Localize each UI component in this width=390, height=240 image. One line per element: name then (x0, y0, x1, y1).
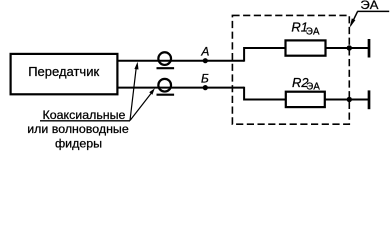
node Б (203, 85, 208, 90)
wire bottom feeder (117, 87, 244, 89)
terminal top (368, 39, 371, 58)
dashed enclosure (antenna equivalent) (232, 15, 349, 124)
wire R1 to terminal (326, 47, 370, 49)
svg-text:или волноводные: или волноводные (27, 122, 129, 136)
wire step up to R1 (244, 48, 286, 62)
label ЭА underline (357, 10, 389, 12)
svg-text:ЭА: ЭА (306, 81, 320, 92)
svg-text:А: А (200, 44, 209, 58)
leader to enclosure (351, 11, 358, 25)
leader 2 arrowhead (149, 88, 155, 95)
svg-text:ЭА: ЭА (306, 26, 320, 37)
leader 1 arrowhead (134, 62, 138, 70)
leader underline (40, 120, 130, 122)
coax connector symbol bottom: circle (158, 79, 171, 92)
wire R2 to terminal (325, 99, 369, 101)
coax connector symbol top: bar (157, 67, 175, 69)
resistor R2 (286, 92, 325, 107)
leader 2 to bottom feeder (130, 94, 151, 121)
terminal bottom (368, 90, 371, 109)
svg-text:фидеры: фидеры (55, 137, 102, 151)
svg-text:Коаксиальные: Коаксиальные (43, 108, 126, 122)
leader arrowhead (350, 18, 356, 27)
wire top feeder (117, 60, 244, 62)
coax connector symbol top: circle (158, 52, 171, 65)
leader 1 to top feeder (130, 67, 136, 121)
svg-text:Б: Б (201, 72, 209, 86)
junction top (347, 45, 352, 50)
coax connector symbol bottom: bar (157, 94, 175, 96)
junction bottom (347, 97, 352, 102)
node A (203, 58, 208, 63)
wire step down to R2 (244, 87, 286, 100)
transmitter box (11, 54, 118, 94)
svg-text:Передатчик: Передатчик (28, 64, 99, 79)
resistor R1 (286, 40, 326, 55)
svg-text:ЭА: ЭА (360, 0, 378, 12)
